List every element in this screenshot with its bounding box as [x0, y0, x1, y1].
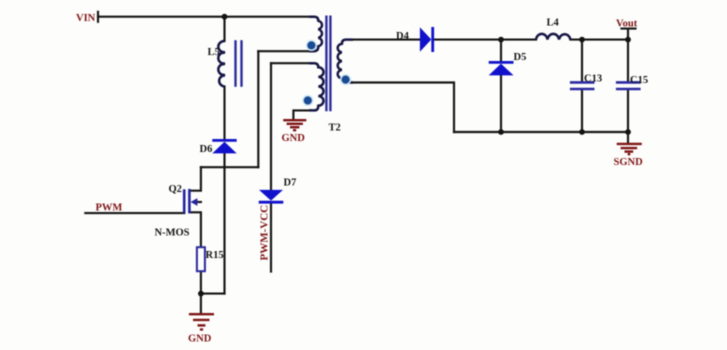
svg-text:L5: L5 [208, 47, 220, 58]
svg-text:N-MOS: N-MOS [155, 228, 190, 239]
svg-text:PWM: PWM [96, 203, 123, 214]
svg-text:GND: GND [188, 334, 212, 345]
svg-text:GND: GND [282, 133, 306, 144]
svg-text:D7: D7 [284, 178, 297, 189]
svg-text:PWM-VCC: PWM-VCC [259, 205, 271, 261]
svg-text:Q2: Q2 [169, 184, 182, 195]
svg-text:C15: C15 [630, 75, 648, 86]
svg-text:SGND: SGND [614, 157, 644, 168]
svg-text:C13: C13 [584, 73, 602, 84]
svg-text:Vout: Vout [616, 19, 638, 30]
svg-text:D5: D5 [514, 52, 527, 63]
svg-text:L4: L4 [547, 18, 560, 29]
svg-text:D4: D4 [396, 31, 410, 42]
svg-text:T2: T2 [329, 123, 341, 134]
svg-text:D6: D6 [200, 144, 213, 155]
svg-text:VIN: VIN [76, 13, 96, 24]
svg-text:R15: R15 [206, 250, 224, 261]
